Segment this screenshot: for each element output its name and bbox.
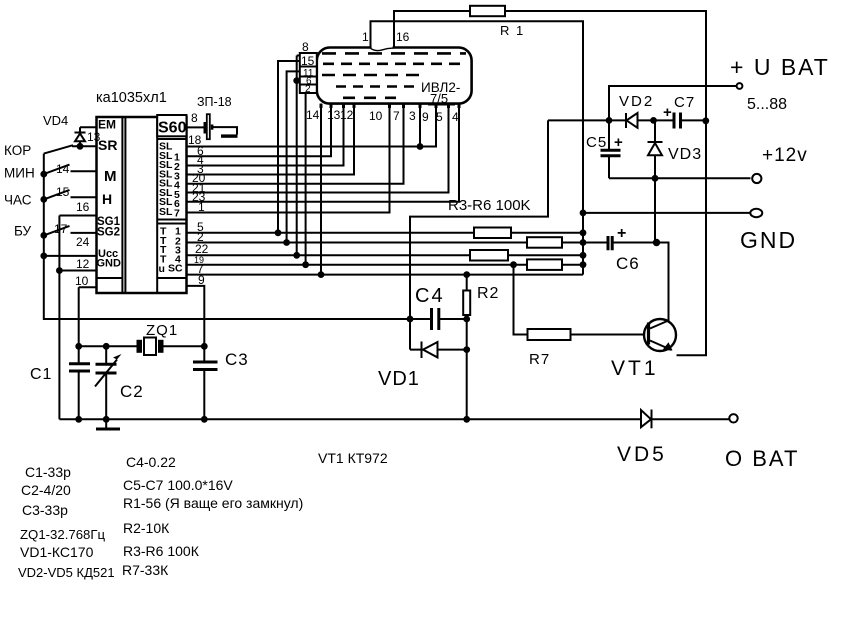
svg-text:9: 9	[422, 110, 429, 124]
svg-text:8: 8	[302, 40, 309, 54]
svg-text:1: 1	[198, 200, 205, 214]
svg-text:VD2-VD5 КД521: VD2-VD5 КД521	[18, 565, 115, 580]
svg-text:15: 15	[56, 185, 70, 199]
svg-text:C2-4/20: C2-4/20	[21, 482, 71, 498]
svg-text:EM: EM	[98, 118, 116, 132]
svg-text:13: 13	[327, 108, 341, 122]
svg-text:C5: C5	[586, 134, 607, 151]
svg-text:R1-56 (Я ваще его замкнул): R1-56 (Я ваще его замкнул)	[123, 495, 303, 511]
svg-text:КОР: КОР	[4, 143, 31, 158]
svg-text:VD1-КС170: VD1-КС170	[20, 544, 94, 560]
svg-text:10: 10	[75, 274, 89, 288]
svg-text:C6: C6	[616, 254, 640, 273]
svg-text:SR: SR	[98, 137, 117, 153]
svg-text:VD4: VD4	[43, 113, 68, 128]
svg-text:10: 10	[369, 109, 383, 123]
svg-text:16: 16	[76, 200, 90, 214]
svg-text:S60: S60	[158, 120, 187, 137]
svg-text:24: 24	[76, 235, 90, 249]
svg-text:+: +	[617, 225, 626, 242]
svg-text:VD3: VD3	[668, 146, 702, 163]
svg-text:22: 22	[195, 242, 209, 256]
svg-text:8: 8	[191, 111, 198, 125]
svg-text:C5-C7 100.0*16V: C5-C7 100.0*16V	[123, 477, 233, 493]
svg-text:C3-33p: C3-33p	[22, 502, 68, 518]
svg-text:3: 3	[409, 109, 416, 123]
svg-text:12: 12	[76, 257, 90, 271]
svg-text:C3: C3	[225, 350, 249, 369]
svg-text:14: 14	[306, 108, 320, 122]
svg-text:4: 4	[452, 110, 459, 124]
svg-text:17: 17	[54, 222, 68, 236]
svg-text:5...88: 5...88	[747, 96, 787, 113]
svg-text:SL: SL	[159, 206, 173, 218]
svg-text:C7: C7	[674, 94, 695, 111]
svg-text:2: 2	[305, 84, 311, 95]
svg-text:1: 1	[362, 30, 369, 44]
svg-text:ZQ1-32.768Гц: ZQ1-32.768Гц	[20, 527, 106, 542]
svg-text:+ U BAT: + U BAT	[730, 54, 830, 80]
svg-text:15: 15	[301, 54, 315, 68]
svg-text:9: 9	[198, 273, 205, 287]
svg-text:u: u	[159, 263, 165, 275]
svg-text:14: 14	[56, 162, 70, 176]
svg-text:C4: C4	[415, 285, 445, 307]
svg-text:12: 12	[340, 108, 354, 122]
svg-text:R7-33К: R7-33К	[122, 562, 169, 578]
svg-text:SC: SC	[168, 262, 183, 274]
svg-text:5: 5	[436, 110, 443, 124]
svg-text:R2-10К: R2-10К	[123, 520, 170, 536]
svg-text:C2: C2	[120, 382, 144, 401]
svg-text:C4-0.22: C4-0.22	[126, 454, 176, 470]
svg-text:ZQ1: ZQ1	[146, 322, 178, 339]
svg-text:M: M	[104, 168, 117, 185]
svg-text:ка1035хл1: ка1035хл1	[96, 90, 167, 106]
svg-text:МИН: МИН	[4, 166, 35, 181]
svg-text:SG2: SG2	[97, 227, 120, 239]
svg-text:16: 16	[396, 30, 410, 44]
svg-text:R 1: R 1	[500, 23, 525, 38]
svg-text:R3-R6 100K: R3-R6 100K	[448, 197, 531, 214]
svg-text:C1: C1	[30, 366, 52, 383]
svg-text:R7: R7	[529, 351, 550, 368]
svg-text:R2: R2	[477, 285, 499, 302]
svg-text:C1-33p: C1-33p	[25, 464, 71, 480]
svg-text:VD2: VD2	[619, 93, 654, 110]
svg-text:GND: GND	[97, 258, 122, 270]
svg-text:VT1 КТ972: VT1 КТ972	[318, 450, 388, 466]
svg-text:7: 7	[174, 208, 180, 220]
svg-text:VD5: VD5	[617, 443, 667, 466]
svg-text:VT1: VT1	[611, 357, 659, 380]
svg-text:+12v: +12v	[762, 145, 808, 166]
svg-text:GND: GND	[740, 227, 797, 253]
svg-text:ЧАС: ЧАС	[4, 193, 32, 208]
svg-text:+: +	[614, 134, 623, 151]
svg-text:ЗП-18: ЗП-18	[197, 95, 232, 109]
svg-text:VD1: VD1	[378, 368, 420, 390]
svg-text:O BAT: O BAT	[725, 446, 799, 471]
svg-text:R3-R6 100К: R3-R6 100К	[123, 543, 200, 559]
svg-text:+: +	[663, 104, 672, 121]
svg-text:H: H	[102, 191, 112, 207]
svg-text:7: 7	[393, 109, 400, 123]
svg-text:БУ: БУ	[14, 224, 32, 239]
